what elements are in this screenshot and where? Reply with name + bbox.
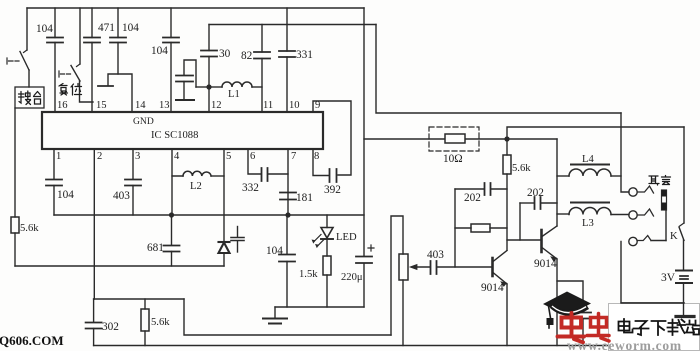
svg-text:202: 202 (464, 192, 481, 204)
svg-text:6: 6 (250, 151, 255, 162)
svg-text:10Ω: 10Ω (443, 153, 463, 165)
resistor R3 10ohm in dashed box (429, 127, 479, 151)
svg-text:30: 30 (219, 48, 231, 60)
text fuwei glyphs (59, 84, 82, 96)
svg-text:1.5k: 1.5k (299, 269, 318, 280)
wire pot ground loop (391, 216, 403, 335)
wire L3 left lead (557, 213, 569, 215)
capacitor C5 30 (201, 25, 217, 88)
svg-text:3V: 3V (661, 272, 676, 284)
capacitor C11 104 pin1 (46, 149, 62, 215)
wire bottom bus (94, 345, 608, 347)
inductor L3 with core (569, 203, 611, 215)
node pin7 bus dot (285, 212, 290, 217)
wire jack drop (621, 113, 629, 192)
wire top rail V+ (27, 7, 364, 9)
wire battery minus over box (621, 303, 684, 315)
wire battery minus (683, 283, 685, 315)
capacitor C4 104 (163, 8, 179, 112)
trimmer CT2 (231, 227, 244, 253)
wire detector rail x557 (556, 139, 558, 226)
resistor R6 5.6k (141, 299, 149, 346)
wire CT1 to node (196, 86, 209, 88)
capacitor C7 331 (279, 8, 295, 112)
wire main bus GND (54, 214, 364, 216)
svg-text:13: 13 (159, 100, 170, 111)
wire L4 right lead (611, 175, 621, 177)
svg-text:4: 4 (174, 151, 180, 162)
wire second rail to pin12 group (209, 24, 376, 26)
svg-text:1: 1 (56, 151, 61, 162)
LED D2 (312, 215, 333, 247)
svg-text:5.6k: 5.6k (512, 163, 531, 174)
earphone jack plug (662, 190, 667, 241)
capacitor C6 82 (254, 25, 270, 113)
svg-text:L3: L3 (582, 218, 594, 229)
svg-text:LED: LED (336, 232, 357, 243)
wire C18 drop to base (519, 203, 521, 240)
svg-text:L2: L2 (190, 181, 202, 192)
transistor Q1 9014 (493, 251, 508, 346)
transistor Q2 9014 (542, 226, 558, 261)
resistor R1 5.6k (11, 217, 19, 233)
node A dot (206, 84, 211, 89)
svg-text:L4: L4 (582, 154, 594, 165)
capacitor C14 104 (279, 215, 295, 307)
svg-text:8: 8 (314, 151, 319, 162)
box soutai (15, 87, 44, 108)
capacitor C19 emitter bypass (575, 313, 591, 319)
watermark chongchong red glyphs (558, 313, 610, 342)
svg-text:471: 471 (98, 22, 115, 34)
inductor L4 with core (569, 165, 611, 177)
wire pin4 to bus (171, 176, 173, 215)
svg-text:5.6k: 5.6k (151, 317, 170, 328)
diode D1 (219, 242, 230, 266)
svg-text:5.6k: 5.6k (20, 223, 39, 234)
svg-text:K: K (670, 231, 678, 242)
wire left 5.6k bottom run (15, 265, 224, 267)
resistor R5 feedback (455, 224, 507, 232)
resistor R2 1.5k (323, 239, 331, 307)
switch K (679, 223, 684, 241)
svg-text:332: 332 (242, 182, 259, 194)
capacitor C20 302 (86, 299, 102, 346)
capacitor C3 104 (110, 8, 126, 74)
svg-text:9014: 9014 (481, 282, 504, 294)
node B dot (504, 136, 509, 141)
capacitor C9 332 (248, 149, 288, 181)
svg-text:5: 5 (226, 151, 231, 162)
wire gnd run under LED (275, 306, 364, 308)
inductor L1 (209, 82, 262, 87)
svg-text:403: 403 (427, 249, 444, 261)
svg-text:2: 2 (97, 151, 102, 162)
wire soutai to R1 (14, 108, 16, 217)
switch S1 soutai (7, 50, 29, 87)
stub antenna bar (98, 85, 113, 87)
ground GND2 bar over box (676, 315, 694, 318)
IC U1 SC1088 (42, 112, 323, 149)
capacitor C1 104 (47, 8, 63, 112)
watermark white box (609, 304, 700, 351)
svg-text:104: 104 (36, 23, 53, 35)
capacitor C13 681 (164, 215, 180, 266)
wire L4 left lead (557, 175, 569, 177)
svg-text:Q606.COM: Q606.COM (0, 333, 64, 348)
wire R1 bottom (14, 233, 16, 266)
svg-text:403: 403 (113, 190, 130, 202)
jack contact ring 3 (629, 236, 666, 246)
svg-text:104: 104 (57, 189, 74, 201)
svg-text:392: 392 (324, 184, 341, 196)
battery BT1 3V (676, 271, 692, 284)
wire pin5 drop (223, 149, 225, 242)
inductor L2 (172, 149, 224, 176)
wire switch S2 drop (79, 8, 81, 64)
capacitor C10 181 (280, 149, 296, 215)
wire battery plus rail (507, 127, 684, 139)
wire B drop and IF out run (376, 25, 621, 114)
capacitor C17 403 coupling (431, 261, 493, 274)
capacitor C2 471 (84, 8, 100, 112)
wire node to detector rail (507, 138, 557, 140)
svg-text:3: 3 (135, 151, 140, 162)
wire pin2 drop (93, 149, 95, 299)
trimmer CT1 (176, 60, 196, 100)
svg-text:681: 681 (147, 242, 164, 254)
svg-text:104: 104 (151, 45, 168, 57)
capacitor C12 403 pin3 (125, 149, 141, 215)
capacitor C16 202 feedback (455, 183, 507, 195)
wire Q2 emitter rail (556, 259, 558, 346)
svg-text:82: 82 (241, 50, 253, 62)
potentiometer RP1 (399, 254, 430, 280)
svg-text:202: 202 (527, 187, 544, 199)
wire K to battery (683, 240, 685, 270)
wire 10ohm feed (364, 138, 445, 140)
jack contact ring 2 (629, 209, 654, 219)
watermark graduation cap (543, 292, 591, 329)
capacitor C15 220u polarized (356, 245, 374, 263)
wire jack sleeve return (621, 242, 684, 304)
wire switch S1 drop (26, 8, 28, 50)
capacitor C18 202 (520, 197, 557, 209)
svg-text:12: 12 (211, 100, 222, 111)
ground GND1 (263, 307, 287, 324)
svg-text:104: 104 (266, 245, 283, 257)
wire emitter cap branch (557, 281, 583, 312)
pin9 loop wire (313, 101, 351, 175)
svg-text:7: 7 (291, 151, 296, 162)
svg-text:9014: 9014 (534, 258, 557, 270)
wire Q2 base coupling (507, 239, 541, 241)
jack contact ring 1 (629, 186, 654, 196)
ground GND2 battery (676, 315, 694, 318)
node pin4 bus dot (169, 212, 174, 217)
wire pin12 drop (208, 87, 210, 112)
svg-text:L1: L1 (228, 89, 240, 100)
svg-text:302: 302 (102, 321, 119, 333)
resistor R4 5.6k (503, 139, 511, 250)
svg-text:104: 104 (122, 22, 139, 34)
text ersai glyphs (649, 176, 671, 186)
switch S2 fuwei (59, 64, 93, 102)
svg-text:11: 11 (263, 100, 273, 111)
wire bottom block top (94, 298, 184, 300)
svg-text:220μ: 220μ (341, 272, 363, 283)
watermark dianzi xiazaizhan glyphs (619, 319, 700, 335)
svg-text:www.eeworm.com: www.eeworm.com (567, 338, 682, 351)
svg-text:16: 16 (57, 100, 68, 111)
svg-text:331: 331 (296, 49, 313, 61)
svg-text:GND: GND (133, 116, 154, 127)
text soutai glyphs (19, 91, 31, 105)
svg-text:9: 9 (315, 100, 320, 111)
svg-text:10: 10 (289, 100, 300, 111)
wire L3 right lead (611, 214, 629, 216)
wire 10ohm to node (465, 138, 507, 140)
wire A right vertical (363, 8, 365, 256)
wire 220u bottom (363, 264, 365, 307)
wire switch K drop (683, 127, 685, 223)
wire emitter cap to bus (582, 319, 584, 346)
svg-text:181: 181 (296, 192, 313, 204)
svg-text:15: 15 (96, 100, 107, 111)
wire bottom block step (184, 299, 391, 335)
capacitor C8 392 (313, 149, 337, 182)
wire C16 drop (454, 189, 456, 267)
wire pot bottom (402, 280, 404, 346)
wire C3 T to pin14 (108, 74, 132, 112)
svg-text:IC SC1088: IC SC1088 (151, 130, 198, 141)
svg-text:14: 14 (135, 100, 146, 111)
